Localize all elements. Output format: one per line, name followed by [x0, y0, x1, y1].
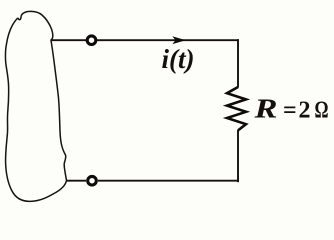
rest-of-network blob: [5, 11, 66, 201]
terminal (top): [87, 36, 96, 45]
svg-text:2: 2: [299, 98, 311, 124]
wire: right vertical, top lead of resistor: [237, 39, 239, 87]
terminal (bottom): [88, 176, 97, 185]
wire: bottom terminal to blob: [66, 180, 86, 182]
current arrow on top wire: [172, 36, 186, 44]
wire: blob to top terminal: [51, 39, 87, 41]
resistor R: [227, 87, 246, 130]
wire: bottom-right corner to bottom terminal: [98, 180, 239, 182]
svg-text:=: =: [283, 98, 297, 124]
svg-text:R: R: [253, 94, 277, 124]
svg-text:i(t): i(t): [162, 44, 195, 74]
wire: top terminal to top-right corner: [97, 39, 239, 41]
svg-text:Ω: Ω: [315, 98, 329, 124]
wire: bottom lead of resistor down to corner: [237, 130, 239, 182]
